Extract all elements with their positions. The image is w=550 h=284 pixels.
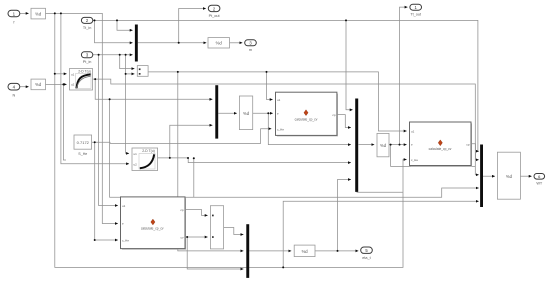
subsystem S1 calculate_cp_cv: [276, 92, 337, 135]
output port 2 Pt_out: [208, 5, 220, 18]
svg-text:cv: cv: [181, 236, 185, 240]
svg-text:T: T: [122, 222, 124, 226]
subsystem S2 calculate_cp_cv: [121, 197, 186, 249]
subsystem icons (red): [151, 110, 443, 225]
svg-text:m: m: [249, 48, 252, 52]
svg-text:u2: u2: [71, 83, 75, 87]
svg-text:2-D T(u): 2-D T(u): [142, 149, 155, 153]
svg-text:cp: cp: [466, 142, 470, 146]
constant block S_He 0.7172: [74, 135, 92, 156]
output port 6 WT: [534, 174, 545, 186]
block B4 %d (tall, after M2): [239, 96, 252, 130]
wire: M2 output to B4: [218, 112, 237, 114]
wire: B5 output to S3.T; riser x=399.5 up to Tt_out: [357, 7, 476, 192]
svg-text:N: N: [13, 94, 16, 98]
wire: M1 mux output to %d and m port; riser at 178.7 to Pt_out: [138, 9, 243, 43]
output port 3 m: [245, 40, 257, 52]
svg-text:u1: u1: [411, 130, 415, 134]
divide block D1: [137, 66, 148, 77]
svg-text:c_He: c_He: [277, 127, 284, 131]
wire: N oval to %d block: [20, 86, 29, 88]
svg-text:T: T: [411, 143, 413, 147]
svg-text:c_He: c_He: [411, 158, 418, 162]
wire: B6 output to eta_t; riser x=337.5 up to M3.in5: [315, 180, 358, 251]
mux M2: [215, 85, 218, 138]
wire: LUT1 output net (W_c to M5 center; branch at 95.2 down to M2.in1 line): [93, 79, 479, 197]
svg-text:Pt_in: Pt_in: [83, 60, 92, 64]
svg-text:%d: %d: [243, 111, 250, 116]
input port 2 Tt_in: [81, 17, 92, 29]
wire: S2.cv to D2.in2; branch down x=187.2 to M4.in3: [185, 237, 243, 269]
svg-text:u1: u1: [277, 98, 281, 102]
svg-text:c_He: c_He: [122, 239, 129, 243]
BLOCKS: [31, 8, 520, 256]
svg-text:%d: %d: [380, 143, 387, 148]
svg-text:calculate_cp_cv: calculate_cp_cv: [141, 227, 164, 231]
wire: S3.u1 feed corner already in D1 net; S3 output to M5.in2: [471, 144, 479, 160]
block B7 %d (WT output, large): [497, 152, 520, 199]
wire: D2 output to M4.in1 (jog): [224, 228, 244, 235]
svg-text:T: T: [277, 112, 279, 116]
svg-text:2-D T(u): 2-D T(u): [78, 70, 91, 74]
block B1 %d (f input conversion): [31, 8, 46, 19]
wire: f input net (H y=13.4 with branches at x=53.9,60.9 down, corner at 102.3 to S2.T): [46, 13, 407, 267]
wire: N input net to LUT1.u2: [46, 84, 67, 160]
lookup table LUT1 (2-D T(u)): [70, 69, 93, 91]
wire: Pt_in net (H y=54.8 to M1.in3; branches at 98.6 to S2.u1, 119.7 to D1.a, 125.6 to D1.b/LUT2.u1): [93, 55, 135, 206]
wire: M5 output to B7: [483, 175, 495, 177]
wire: S1 output to M3.in2 (jog): [337, 115, 351, 128]
wire: M3 output to B5: [359, 144, 375, 146]
wire: M4.in2 center input from x=177.8 already drawn; M4 output to B6: [249, 250, 291, 252]
mux M4: [246, 224, 249, 278]
block B3 %d (m output conversion): [208, 38, 230, 48]
mux M5: [480, 145, 483, 208]
svg-text:%d: %d: [35, 11, 42, 16]
wire: S_He constant net (down x=97.3, S2.c_He, bottom bus to S1.c_He, S3.c_He riser, M5 riser): [92, 129, 479, 268]
svg-text:%d: %d: [35, 82, 42, 87]
svg-text:cp: cp: [180, 208, 184, 212]
wire: S2.cp to D2.in1 (jog): [185, 210, 208, 216]
svg-text:calculate_cp_cv: calculate_cp_cv: [295, 117, 318, 121]
svg-text:0.7172: 0.7172: [77, 140, 90, 145]
wire: Tt_in net (long H y=20.4 to x=477.5 down to M5; branches to M1.in1, M1.in2, M3.in1): [93, 20, 479, 151]
svg-text:u2: u2: [134, 162, 138, 166]
svg-text:Tt_in: Tt_in: [83, 26, 91, 30]
svg-text:%d: %d: [216, 41, 223, 46]
mux M3: [355, 99, 358, 192]
output port 5 eta_t: [361, 247, 373, 260]
svg-text:S_He: S_He: [78, 152, 87, 156]
wire: f oval to %d block: [20, 12, 29, 14]
svg-text:eta_t: eta_t: [362, 256, 371, 260]
wire: B7 output to WT port: [521, 175, 532, 177]
input port 3 Pt_in: [81, 52, 92, 64]
block B2 %d (N input conversion): [31, 79, 46, 90]
output port 1 Tt_out: [410, 4, 422, 16]
svg-text:u1: u1: [134, 152, 138, 156]
block B5 %d (after M3): [377, 133, 389, 156]
mux M1: [135, 25, 138, 62]
svg-text:calculate_cp_cv: calculate_cp_cv: [429, 147, 452, 151]
svg-text:WT: WT: [536, 181, 543, 185]
wire: LUT2 output net (riser x=169.8 to M2.in2; jog to M3.in4): [158, 125, 351, 197]
svg-text:u1: u1: [122, 204, 126, 208]
input port 1 f: [8, 10, 20, 24]
wire: D1 divide output net (y=71.9 to S3.u1; branches at 177.8 to M4.in2, 266.5 to S1.u1): [148, 72, 407, 251]
wire: B4 output to S1.T; branch down x=268.3 to M3 center input: [253, 113, 351, 144]
lookup table LUT2 (2-D T(u)): [132, 148, 158, 171]
svg-text:u1: u1: [71, 72, 75, 76]
input port 4 N: [8, 83, 20, 97]
divide block D2: [210, 206, 223, 249]
subsystem shadows: [122, 94, 472, 250]
svg-text:%d: %d: [506, 174, 513, 179]
svg-text:Pt_out: Pt_out: [209, 14, 221, 18]
subsystem S3 calculate_cp_cv: [410, 122, 472, 166]
svg-text:cp: cp: [332, 113, 336, 117]
svg-text:f: f: [13, 21, 15, 25]
svg-text:Tt_out: Tt_out: [410, 13, 422, 17]
block B6 %d (eta_t output conversion): [294, 245, 315, 257]
svg-text:%d: %d: [302, 249, 309, 254]
